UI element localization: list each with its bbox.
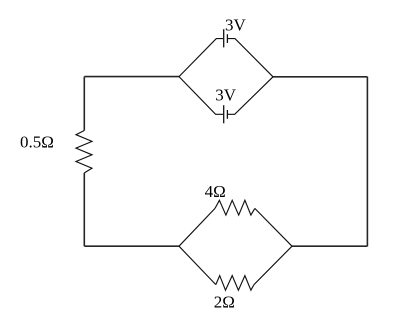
svg-text:0.5Ω: 0.5Ω	[20, 133, 54, 152]
wire battery B1 right diagonal	[228, 39, 273, 77]
wire diagonal from resistor R3 right	[254, 246, 292, 284]
svg-text:3V: 3V	[225, 15, 247, 34]
svg-text:2Ω: 2Ω	[214, 292, 235, 311]
wire left lower segment	[83, 173, 85, 246]
resistor R3 2ohm zigzag	[216, 276, 254, 291]
resistor R2 4ohm zigzag	[215, 200, 255, 215]
wire diagonal from resistor R2 right	[255, 208, 292, 246]
battery B2 short plate	[226, 110, 228, 119]
wire diagonal to battery B1 left	[179, 39, 223, 77]
wire bottom-right segment	[292, 245, 367, 247]
wire right side	[366, 77, 368, 246]
svg-text:3V: 3V	[215, 85, 237, 104]
wire top-right segment	[273, 76, 367, 78]
wire top-left segment	[84, 76, 179, 78]
wire diagonal to resistor R2 left	[179, 208, 215, 246]
battery B1 short plate	[226, 34, 228, 43]
wire diagonal to resistor R3 left	[179, 246, 216, 284]
wire battery B2 right diagonal	[228, 77, 273, 115]
resistor R1 0.5ohm zigzag	[76, 131, 92, 173]
wire left upper segment	[83, 77, 85, 131]
battery B1 long plate	[223, 29, 225, 47]
wire bottom-left segment	[84, 245, 179, 247]
battery B2 long plate	[223, 105, 225, 123]
wire diagonal to battery B2 left	[179, 77, 223, 115]
svg-text:4Ω: 4Ω	[205, 182, 226, 201]
